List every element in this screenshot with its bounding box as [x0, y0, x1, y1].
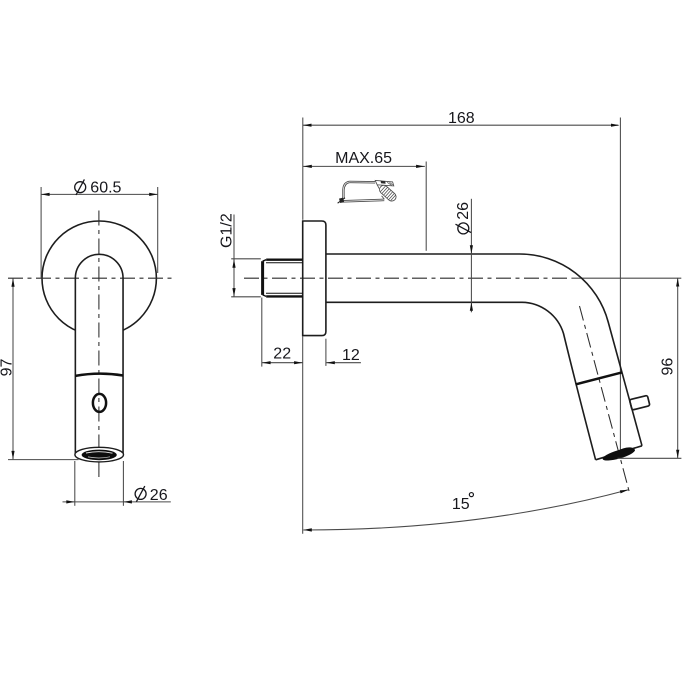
svg-text:G1/2: G1/2: [219, 213, 236, 248]
svg-text:60.5: 60.5: [90, 180, 121, 197]
svg-text:26: 26: [150, 487, 168, 504]
svg-text:26: 26: [455, 202, 472, 220]
svg-text:168: 168: [448, 110, 475, 127]
svg-text:97: 97: [0, 359, 15, 377]
svg-text:96: 96: [659, 358, 676, 376]
svg-text:12: 12: [342, 347, 360, 364]
svg-text:15: 15: [452, 496, 470, 513]
svg-text:MAX.65: MAX.65: [335, 150, 392, 167]
svg-text:22: 22: [273, 346, 291, 363]
